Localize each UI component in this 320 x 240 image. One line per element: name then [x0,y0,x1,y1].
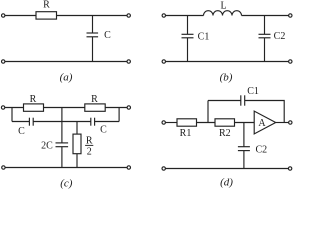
wire (d) feedback top right [245,101,285,123]
wire (d) feedback top left [208,100,241,102]
svg-text:(c): (c) [60,178,73,190]
capacitor C (a) [87,16,99,62]
figure (c) input terminal bottom [2,166,5,169]
figure (b) input terminal top [162,14,165,17]
wire (b) bottom [166,61,289,63]
svg-text:C: C [104,30,111,41]
svg-text:2: 2 [87,147,92,158]
figure (d) input terminal bottom [162,167,165,170]
resistor R left (c) [24,104,44,111]
figure (a) input terminal top [2,14,5,17]
wire (a) bottom [5,61,127,63]
svg-text:R: R [86,135,93,146]
figure (b) input terminal bottom [162,60,165,63]
capacitor C1 (b) [182,16,194,62]
svg-text:R: R [30,94,37,105]
figure (d) output terminal bottom [288,167,291,170]
svg-text:C: C [100,125,107,136]
op-amp A (d) [254,111,276,134]
wire (a) top left [5,15,36,17]
svg-text:(a): (a) [60,72,73,84]
capacitor C1 (d) [241,95,245,105]
wire (d) input [165,122,177,124]
capacitor 2C (c) [56,108,69,168]
wire (c) C-row right [95,121,120,123]
figure (c) input terminal top [1,106,4,109]
svg-text:R: R [91,94,98,105]
wire (c) top left [5,107,24,109]
label R/2 fraction (c) [85,135,93,157]
wire (c) right drop to C row [118,108,120,122]
figure (d) input terminal [162,121,165,124]
resistor R/2 (c) [73,122,81,168]
svg-text:C2: C2 [255,144,267,155]
wire (c) top right [105,107,127,109]
wire (d) bottom [165,168,288,170]
wire (b) top left [166,15,204,17]
figure (a) output terminal top [127,14,130,17]
svg-text:C1: C1 [198,32,210,43]
svg-text:R2: R2 [219,128,231,139]
svg-text:C2: C2 [274,31,286,42]
capacitor C2 (b) [259,16,271,62]
resistor R2 (d) [215,119,235,126]
svg-text:(d): (d) [220,177,233,189]
svg-text:R: R [43,0,50,11]
figure (a) input terminal bottom [2,60,5,63]
resistor R right (c) [85,104,105,111]
wire (d) R1 to R2 [197,122,216,124]
capacitor C right (c) [91,118,95,126]
wire (a) top right [57,15,128,17]
wire (c) top middle [44,107,85,109]
svg-text:R1: R1 [180,128,192,139]
figure (c) output terminal top [127,106,130,109]
svg-text:L: L [220,1,226,12]
wire (c) left drop to C row [11,108,13,122]
svg-text:C1: C1 [247,86,259,97]
figure (b) output terminal bottom [289,60,292,63]
wire (b) top right [242,15,289,17]
wire (d) feedback riser [207,101,209,123]
wire (c) C-row middle [33,121,91,123]
inductor L (b) [204,11,242,16]
svg-text:2C: 2C [41,140,53,151]
capacitor C2 (d) [238,123,250,169]
wire (c) C-row left [12,121,29,123]
svg-text:A: A [258,118,266,129]
figure (b) output terminal top [289,14,292,17]
wire (d) output [276,122,289,124]
svg-text:(b): (b) [220,72,233,84]
resistor R (a) [36,12,57,19]
figure (c) output terminal bottom [127,166,130,169]
wire (d) R2 to amplifier [235,122,255,124]
capacitor C left (c) [29,118,33,126]
figure (d) output terminal [289,121,292,124]
resistor R1 (d) [177,119,197,126]
svg-text:C: C [18,126,25,137]
figure (a) output terminal bottom [127,60,130,63]
wire (c) bottom [5,167,127,169]
